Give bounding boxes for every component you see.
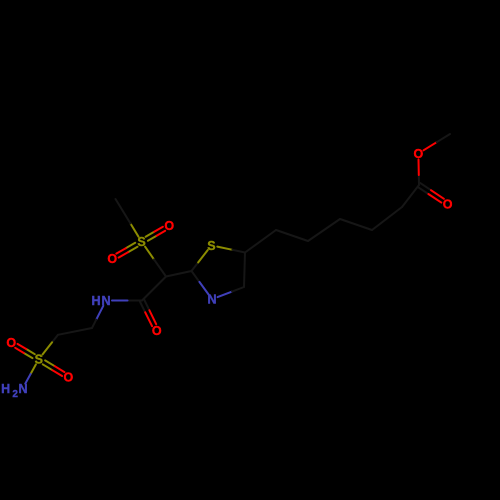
wire: amide C-N bond <box>112 300 142 302</box>
wire: sulfone S to central C bond <box>145 247 166 277</box>
svg-text:O: O <box>64 371 74 385</box>
wire: chain V1-V2 bond <box>276 230 308 241</box>
node: amide nitrogen HN <box>91 294 110 308</box>
node: sulfonamide oxygen O (lower right) <box>64 371 74 385</box>
wire: central C to thiazolidine C2 bond <box>166 271 192 277</box>
svg-text:S: S <box>207 239 215 253</box>
wire: sulfonamide S=O upper double bond <box>15 344 35 358</box>
svg-text:O: O <box>107 252 117 266</box>
wire: CH2-sulfonamide S bond <box>43 335 59 355</box>
wire: ester C=O double bond <box>418 183 444 203</box>
svg-text:O: O <box>443 197 453 211</box>
wire: amide C=O double bond <box>140 300 156 327</box>
node: methylsulfonyl sulfur S <box>137 235 145 249</box>
wire: sulfone S=O lower double bond <box>116 243 137 258</box>
svg-text:O: O <box>164 219 174 233</box>
wire: amide N-CH2 bond <box>92 306 103 328</box>
wire: ring C4-C5 bond <box>244 253 245 288</box>
node: sulfone oxygen O (lower) <box>107 252 117 266</box>
node: thiazolidine ring nitrogen N <box>207 293 216 307</box>
svg-text:S: S <box>35 353 43 367</box>
wire: ring S-C5 bond <box>217 247 245 253</box>
svg-text:H: H <box>91 294 100 308</box>
wire: sulfonamide S=O lower double bond <box>43 360 65 376</box>
wire: chain V3-V4 bond <box>340 219 372 230</box>
wire: central C to amide C bond <box>142 277 166 301</box>
node: amide oxygen O <box>152 324 162 338</box>
wire: chain V4-V5 bond <box>372 207 402 230</box>
wire: chain V5 to ester C bond <box>402 185 419 207</box>
wire: sulfone S=O upper double bond <box>146 227 166 241</box>
node: sulfone oxygen O (upper) <box>164 219 174 233</box>
wire: ester O-CH3 bond <box>424 134 451 150</box>
wire: chain V2-V3 bond <box>308 219 340 241</box>
wire: ring N-C4 bond <box>218 287 244 297</box>
wire: sulfonamide S-NH2 bond <box>25 364 36 383</box>
svg-text:O: O <box>6 336 16 350</box>
svg-text:H: H <box>1 382 10 396</box>
svg-text:N: N <box>207 293 216 307</box>
wire: ring C2-N bond <box>192 271 209 294</box>
node: thiazolidine ring sulfur S <box>207 239 215 253</box>
node: sulfonamide oxygen O (upper left) <box>6 336 16 350</box>
wire: CH2-CH2 bond <box>58 328 92 335</box>
svg-text:S: S <box>137 235 145 249</box>
node: ester oxygen O (ether) <box>414 147 424 161</box>
node: sulfonamide sulfur S <box>35 353 43 367</box>
node: ester oxygen O (carbonyl) <box>443 197 453 211</box>
wire: methylsulfonyl S-CH3 bond <box>116 199 139 237</box>
wire: chain C5-V1 bond <box>245 230 276 253</box>
wire: ring C2-S bond <box>192 250 208 271</box>
svg-text:O: O <box>414 147 424 161</box>
node: sulfonamide H2N group <box>1 382 27 400</box>
wire: ester C-O bond <box>418 160 421 186</box>
svg-text:O: O <box>152 324 162 338</box>
svg-text:N: N <box>101 294 110 308</box>
svg-text:N: N <box>18 382 27 396</box>
